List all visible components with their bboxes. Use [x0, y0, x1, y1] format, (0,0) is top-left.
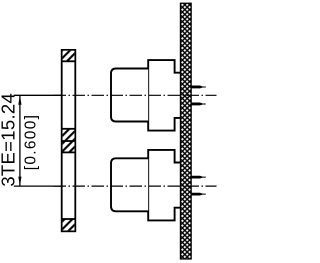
centerline lower connector — [54, 185, 217, 187]
lower connector — [111, 150, 180, 221]
arrowhead up — [18, 95, 21, 105]
upper connector — [111, 60, 180, 131]
pin lower-2 — [191, 193, 206, 196]
front plate cross-section outline — [62, 50, 76, 231]
pin upper-2 — [191, 103, 206, 106]
connector cap — [111, 69, 148, 122]
svg-text:[0.600]: [0.600] — [22, 114, 39, 171]
plate hatch top — [63, 51, 75, 62]
dimension line — [19, 95, 21, 186]
arrowhead down — [18, 177, 21, 187]
centerline upper connector — [54, 94, 217, 96]
mounting panel cross-section — [180, 3, 191, 259]
connector cap — [111, 158, 148, 211]
connector flange and mounting boss — [148, 60, 180, 131]
plate hatch middle lower — [63, 141, 75, 152]
plate hatch middle upper — [63, 129, 75, 140]
svg-text:3TE=15.24: 3TE=15.24 — [0, 93, 19, 187]
pin lower-1 — [191, 176, 206, 179]
pin upper-1 — [191, 86, 206, 89]
extension line upper — [14, 94, 63, 96]
extension line lower — [14, 185, 63, 187]
connector flange and mounting boss — [148, 150, 180, 221]
plate hatch bottom — [63, 219, 75, 230]
